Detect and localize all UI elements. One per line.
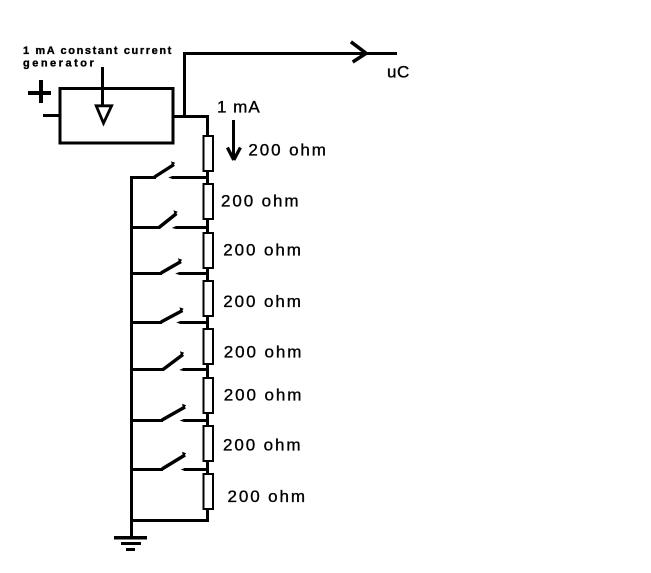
svg-text:generator: generator bbox=[23, 57, 96, 69]
svg-text:200 ohm: 200 ohm bbox=[224, 386, 303, 405]
svg-text:1 mA constant current: 1 mA constant current bbox=[23, 45, 173, 57]
svg-text:200 ohm: 200 ohm bbox=[223, 436, 302, 455]
svg-text:uC: uC bbox=[387, 63, 410, 82]
svg-text:200 ohm: 200 ohm bbox=[248, 141, 327, 160]
svg-text:1 mA: 1 mA bbox=[217, 98, 261, 117]
svg-text:200 ohm: 200 ohm bbox=[221, 192, 300, 211]
svg-text:200 ohm: 200 ohm bbox=[228, 487, 307, 506]
svg-text:200 ohm: 200 ohm bbox=[223, 292, 302, 311]
svg-text:200 ohm: 200 ohm bbox=[224, 343, 303, 362]
svg-text:200 ohm: 200 ohm bbox=[223, 240, 302, 259]
